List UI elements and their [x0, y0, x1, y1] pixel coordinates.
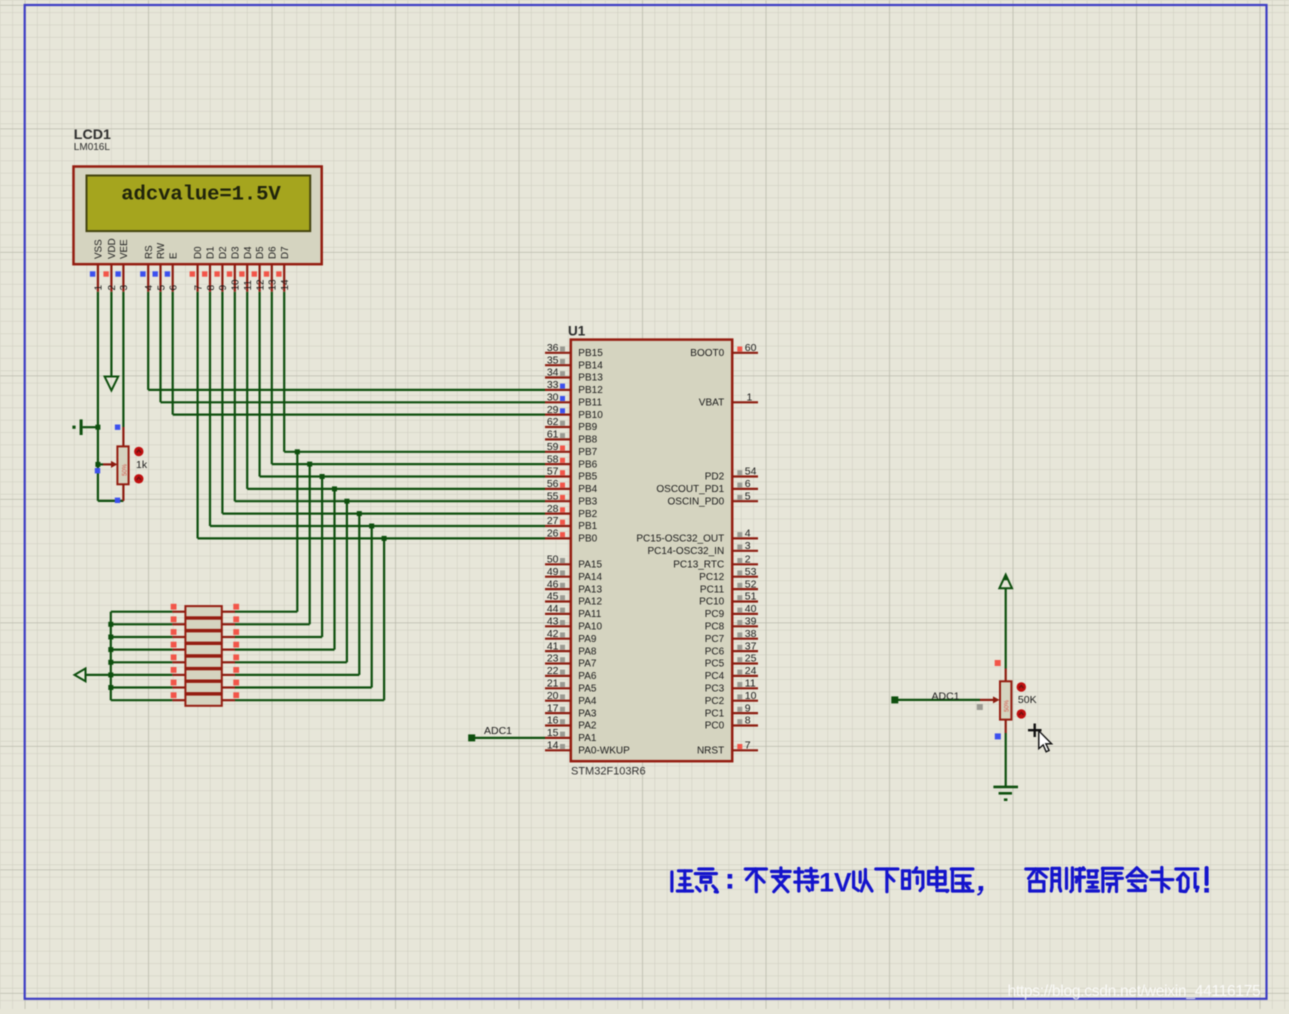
svg-text:40: 40 — [745, 603, 757, 615]
svg-text:D4: D4 — [243, 246, 254, 259]
svg-text:44: 44 — [547, 603, 559, 615]
svg-text:30: 30 — [547, 392, 559, 404]
svg-text:35: 35 — [547, 354, 559, 366]
svg-text:7: 7 — [193, 285, 204, 291]
svg-text:PB11: PB11 — [578, 398, 602, 409]
svg-text:21: 21 — [547, 678, 559, 690]
svg-text:D1: D1 — [206, 246, 217, 259]
svg-text:2: 2 — [745, 554, 751, 566]
svg-text:50: 50 — [547, 554, 559, 566]
svg-text:43: 43 — [547, 616, 559, 628]
svg-text:PA2: PA2 — [578, 721, 597, 732]
svg-text:6: 6 — [745, 478, 751, 490]
svg-text:https://blog.csdn.net/weixin_4: https://blog.csdn.net/weixin_44116175 — [1008, 983, 1262, 1000]
svg-text:38: 38 — [745, 628, 757, 640]
svg-text:17: 17 — [547, 702, 559, 714]
svg-text:PC8: PC8 — [705, 622, 725, 633]
svg-text:D2: D2 — [218, 246, 229, 259]
svg-text:PC5: PC5 — [705, 659, 725, 670]
svg-text:PD2: PD2 — [705, 472, 725, 483]
svg-text:10: 10 — [745, 690, 757, 702]
svg-text:ADC1: ADC1 — [932, 690, 960, 702]
svg-text:PC1: PC1 — [705, 708, 725, 719]
svg-text:D0: D0 — [193, 246, 204, 259]
svg-text:3: 3 — [119, 285, 130, 291]
svg-text:VSS: VSS — [94, 239, 105, 259]
svg-text:PC13_RTC: PC13_RTC — [673, 560, 724, 571]
svg-text:STM32F103R6: STM32F103R6 — [571, 766, 646, 778]
svg-text:2: 2 — [107, 285, 118, 291]
svg-text:9: 9 — [218, 285, 229, 291]
svg-text:PC6: PC6 — [705, 646, 725, 657]
svg-text:51: 51 — [745, 591, 757, 603]
svg-text:14: 14 — [547, 740, 559, 752]
svg-text:PA6: PA6 — [578, 671, 597, 682]
svg-text:26: 26 — [547, 528, 559, 540]
svg-text:57: 57 — [547, 466, 559, 478]
svg-text:6: 6 — [169, 285, 180, 291]
svg-text:22: 22 — [547, 665, 559, 677]
svg-text:46: 46 — [547, 578, 559, 590]
svg-text:58: 58 — [547, 453, 559, 465]
svg-text:PC10: PC10 — [699, 597, 724, 608]
svg-text:NRST: NRST — [697, 746, 724, 757]
svg-text:PA4: PA4 — [578, 696, 597, 707]
svg-text:16: 16 — [547, 715, 559, 727]
svg-text:50%: 50% — [1005, 699, 1011, 712]
svg-text:D3: D3 — [230, 246, 241, 259]
svg-text:23: 23 — [547, 653, 559, 665]
svg-text:VDD: VDD — [107, 238, 118, 259]
svg-text:PB10: PB10 — [578, 410, 603, 421]
svg-text:50%: 50% — [122, 463, 128, 476]
svg-text:E: E — [168, 252, 179, 259]
svg-text:5: 5 — [745, 490, 751, 502]
svg-text:PB5: PB5 — [578, 472, 597, 483]
svg-text:41: 41 — [547, 640, 559, 652]
svg-text:9: 9 — [745, 702, 751, 714]
svg-text:PA3: PA3 — [578, 708, 597, 719]
svg-text:PA15: PA15 — [578, 560, 602, 571]
svg-text:PA10: PA10 — [578, 622, 602, 633]
svg-text:PA14: PA14 — [578, 572, 602, 583]
svg-text:PB2: PB2 — [578, 509, 597, 520]
svg-text:PB13: PB13 — [578, 373, 603, 384]
svg-text:RW: RW — [156, 242, 167, 259]
svg-text:BOOT0: BOOT0 — [690, 348, 724, 359]
svg-text:45: 45 — [547, 591, 559, 603]
svg-text:52: 52 — [745, 578, 757, 590]
svg-text:62: 62 — [547, 416, 559, 428]
svg-text:15: 15 — [547, 727, 559, 739]
svg-text:PB7: PB7 — [578, 447, 597, 458]
svg-text:PB9: PB9 — [578, 422, 597, 433]
svg-text:50K: 50K — [1018, 694, 1037, 706]
svg-text:1V: 1V — [819, 867, 852, 897]
svg-text:VBAT: VBAT — [699, 398, 724, 409]
svg-text:36: 36 — [547, 342, 559, 354]
svg-text:PA8: PA8 — [578, 646, 597, 657]
svg-text:VEE: VEE — [119, 239, 130, 259]
svg-text:1: 1 — [94, 285, 105, 291]
svg-text:29: 29 — [547, 404, 559, 416]
svg-text:PC12: PC12 — [699, 572, 724, 583]
svg-text:1k: 1k — [136, 459, 148, 471]
svg-text:PC2: PC2 — [705, 696, 725, 707]
svg-text:PB1: PB1 — [578, 521, 597, 532]
svg-text:D7: D7 — [280, 246, 291, 259]
svg-text:PC9: PC9 — [705, 609, 725, 620]
svg-text:OSCOUT_PD1: OSCOUT_PD1 — [656, 484, 724, 495]
svg-text:8: 8 — [206, 285, 217, 291]
svg-text:42: 42 — [547, 628, 559, 640]
svg-text:25: 25 — [745, 653, 757, 665]
svg-text:4: 4 — [745, 528, 751, 540]
svg-text:PC15-OSC32_OUT: PC15-OSC32_OUT — [636, 534, 724, 545]
svg-text:11: 11 — [243, 280, 254, 291]
svg-text:PC3: PC3 — [705, 684, 725, 695]
svg-text:4: 4 — [144, 285, 155, 291]
svg-text:34: 34 — [547, 367, 559, 379]
svg-text:53: 53 — [745, 566, 757, 578]
svg-text:PB15: PB15 — [578, 348, 603, 359]
svg-text:LCD1: LCD1 — [74, 127, 111, 143]
svg-text:PB6: PB6 — [578, 459, 597, 470]
svg-text:PC7: PC7 — [705, 634, 725, 645]
svg-text:PB4: PB4 — [578, 484, 597, 495]
svg-text:RS: RS — [144, 245, 155, 259]
svg-text:39: 39 — [745, 616, 757, 628]
svg-text:PC14-OSC32_IN: PC14-OSC32_IN — [647, 546, 724, 557]
svg-text:PB3: PB3 — [578, 496, 597, 507]
svg-text:27: 27 — [547, 515, 559, 527]
svg-text:13: 13 — [268, 279, 279, 291]
svg-text:adcvalue=1.5V: adcvalue=1.5V — [121, 184, 281, 207]
svg-text:PA11: PA11 — [578, 609, 601, 620]
svg-text:PA5: PA5 — [578, 684, 597, 695]
svg-text:LM016L: LM016L — [74, 142, 111, 153]
svg-text:37: 37 — [745, 640, 757, 652]
svg-text:D5: D5 — [255, 246, 266, 259]
svg-text:3: 3 — [745, 540, 751, 552]
svg-text:20: 20 — [547, 690, 559, 702]
svg-text:56: 56 — [547, 478, 559, 490]
svg-text:5: 5 — [156, 285, 167, 291]
svg-text:60: 60 — [745, 342, 757, 354]
svg-text:PA7: PA7 — [578, 659, 597, 670]
svg-text:PB0: PB0 — [578, 534, 597, 545]
svg-text:10: 10 — [231, 279, 242, 291]
svg-text:12: 12 — [255, 279, 266, 291]
svg-text:8: 8 — [745, 715, 751, 727]
svg-text:PA13: PA13 — [578, 584, 602, 595]
svg-text:PC0: PC0 — [705, 721, 725, 732]
svg-text:PA9: PA9 — [578, 634, 597, 645]
svg-text:U1: U1 — [568, 324, 586, 339]
svg-text:PC4: PC4 — [705, 671, 725, 682]
svg-text:54: 54 — [745, 466, 757, 478]
svg-text:PC11: PC11 — [700, 584, 725, 595]
svg-text:PB12: PB12 — [578, 385, 603, 396]
svg-text:PB8: PB8 — [578, 435, 597, 446]
svg-text:7: 7 — [745, 740, 751, 752]
svg-text:PB14: PB14 — [578, 360, 603, 371]
svg-text:55: 55 — [547, 490, 559, 502]
svg-text:1: 1 — [747, 392, 753, 404]
svg-text:PA0-WKUP: PA0-WKUP — [578, 746, 630, 757]
svg-text:59: 59 — [547, 441, 559, 453]
svg-text:24: 24 — [745, 665, 757, 677]
svg-text:14: 14 — [280, 279, 291, 291]
svg-text:ADC1: ADC1 — [484, 725, 512, 737]
svg-text:PA1: PA1 — [578, 733, 597, 744]
svg-text:28: 28 — [547, 503, 559, 515]
svg-text:49: 49 — [547, 566, 559, 578]
svg-text:11: 11 — [745, 678, 756, 690]
svg-text:PA12: PA12 — [578, 597, 602, 608]
svg-text:33: 33 — [547, 379, 559, 391]
svg-text:OSCIN_PD0: OSCIN_PD0 — [668, 496, 725, 507]
svg-text:61: 61 — [547, 429, 559, 441]
svg-text:D6: D6 — [267, 246, 278, 259]
